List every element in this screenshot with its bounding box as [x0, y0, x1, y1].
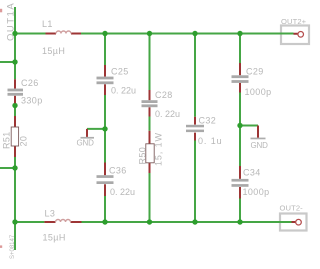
- svg-text:C25: C25: [111, 67, 129, 77]
- svg-text:OUT2-: OUT2-: [280, 204, 304, 213]
- svg-text:15µH: 15µH: [43, 233, 66, 243]
- svg-text:20: 20: [19, 136, 29, 147]
- svg-text:OUT2+: OUT2+: [281, 17, 307, 26]
- svg-text:C29: C29: [246, 67, 264, 77]
- svg-text:330p: 330p: [21, 96, 43, 106]
- svg-text:0. 22u: 0. 22u: [111, 86, 136, 96]
- svg-text:15, 1W: 15, 1W: [154, 132, 164, 166]
- svg-text:OUT1A: OUT1A: [6, 2, 17, 41]
- svg-text:C26: C26: [21, 78, 39, 88]
- svg-text:C28: C28: [155, 90, 173, 100]
- svg-text:R50: R50: [138, 147, 148, 165]
- svg-text:L1: L1: [42, 19, 53, 29]
- svg-text:0. 1u: 0. 1u: [198, 136, 223, 146]
- svg-text:L3: L3: [45, 209, 56, 219]
- svg-text:GND: GND: [251, 141, 269, 150]
- svg-text:0. 22u: 0. 22u: [155, 109, 180, 119]
- svg-text:15µH: 15µH: [42, 46, 65, 56]
- svg-text:1000p: 1000p: [243, 187, 270, 197]
- svg-text:1000p: 1000p: [245, 87, 272, 97]
- svg-text:0. 22u: 0. 22u: [110, 187, 135, 197]
- svg-text:C34: C34: [243, 168, 261, 178]
- svg-text:GND: GND: [77, 139, 95, 148]
- svg-text:C32: C32: [199, 116, 217, 126]
- svg-text:R51: R51: [2, 131, 12, 149]
- svg-text:S+08147: S+08147: [10, 234, 16, 259]
- svg-text:C36: C36: [109, 166, 127, 176]
